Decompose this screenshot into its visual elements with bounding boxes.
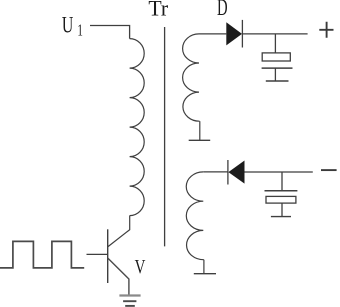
svg-text:D: D [217, 0, 228, 20]
svg-text:V: V [135, 256, 146, 278]
ground bar secondary bottom [194, 273, 216, 275]
plus sign [319, 22, 333, 38]
minus sign [321, 169, 337, 171]
wire secondary top bottom lead [199, 121, 201, 140]
inductor secondary bottom winding [186, 172, 204, 260]
capacitor C2 (bottom, polarized) [265, 172, 298, 217]
wire primary bottom to collector [108, 216, 130, 247]
svg-text:U: U [62, 13, 74, 38]
wire secondary bottom to diode [203, 171, 228, 173]
diode 2 cathode bar [227, 160, 229, 185]
wire from U1 to primary top [90, 26, 130, 39]
ground [119, 296, 140, 306]
wire secondary bottom lead [203, 260, 205, 274]
transformer core [164, 27, 166, 246]
wire diode to + output [242, 33, 307, 35]
transistor emitter lead [108, 258, 129, 295]
square wave drive signal [0, 241, 84, 268]
svg-text:Tr: Tr [148, 0, 168, 20]
wire diode 2 to - output [245, 171, 313, 173]
capacitor C1 (top, polarized) [262, 34, 293, 81]
svg-text:1: 1 [77, 21, 83, 40]
inductor primary winding of Tr [130, 39, 145, 216]
wire base lead [87, 253, 108, 255]
wire secondary top to diode [199, 33, 226, 35]
diode D triangle [226, 22, 242, 45]
ground bar secondary top [189, 139, 211, 141]
transistor V bar [107, 229, 109, 283]
inductor secondary top winding [183, 34, 200, 121]
diode 2 triangle (points left) [228, 161, 244, 184]
label U1 [62, 13, 83, 40]
diode D cathode bar [241, 20, 243, 48]
